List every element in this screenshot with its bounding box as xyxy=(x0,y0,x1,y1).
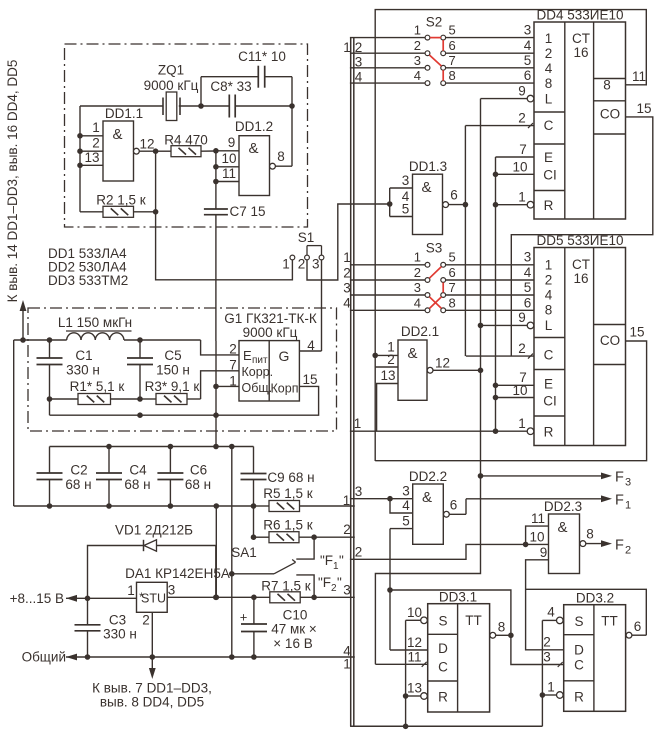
svg-text:1: 1 xyxy=(282,257,290,272)
counter U DD4 533IE10 box xyxy=(534,8,626,220)
node junction C11 left xyxy=(198,103,204,109)
svg-text:1: 1 xyxy=(343,250,351,265)
resistor R7 xyxy=(261,579,355,603)
wire group bus vertical pair xyxy=(351,38,354,727)
wire DD3.1 S-R tie column xyxy=(405,620,407,726)
wire G1 pin2 feed xyxy=(201,340,239,355)
svg-text:9: 9 xyxy=(540,545,548,560)
svg-text:11: 11 xyxy=(632,69,646,84)
wire DD3.2 S pin4 xyxy=(542,605,563,624)
wire DD3.1 output pin8 xyxy=(490,620,511,639)
svg-text:8: 8 xyxy=(449,68,456,83)
wire DD5 R pin1 net1 xyxy=(350,416,534,435)
svg-text:5: 5 xyxy=(524,280,532,295)
wire clock net column xyxy=(464,126,466,357)
capacitor C1 xyxy=(37,340,100,399)
svg-text:TT: TT xyxy=(465,613,482,628)
svg-text:11: 11 xyxy=(531,511,545,526)
svg-text:4: 4 xyxy=(524,265,532,280)
wire DD5 E pin7 xyxy=(496,370,535,385)
svg-text:R5 1,5 к: R5 1,5 к xyxy=(263,486,313,501)
wire load net column xyxy=(375,99,480,665)
node R7 SA1 tap xyxy=(311,595,317,601)
wire DD5 L pin9 xyxy=(481,310,534,329)
wire R3 to G1 pin7 xyxy=(201,371,239,399)
wire DD1.3 output pin6 xyxy=(443,188,466,208)
wire DD3.2 R pin1 xyxy=(542,680,563,699)
svg-text:1: 1 xyxy=(545,31,553,46)
svg-text:8: 8 xyxy=(545,303,553,318)
node G1 bottom junction xyxy=(213,412,219,418)
wire ground rail xyxy=(66,654,355,661)
net +5V supply: rotated label К выв. 14 DD1-DD3, выв. 16 DD4, DD5 xyxy=(5,60,20,303)
svg-text:1: 1 xyxy=(625,500,631,512)
svg-text:G: G xyxy=(279,348,290,364)
node DD2.2 pin3 junction xyxy=(387,496,393,502)
svg-text:F: F xyxy=(615,493,624,509)
node DD3.1 output junction xyxy=(508,633,514,639)
wire DD3.1 S pin10 xyxy=(406,605,428,624)
capacitor C2 xyxy=(37,447,92,507)
wire net2 step xyxy=(350,530,549,560)
wire DD2.3 pin9 xyxy=(526,545,549,590)
svg-text:× 16 В: × 16 В xyxy=(273,636,312,651)
node rail to regulator riser top xyxy=(214,503,220,509)
label S2 bus wire numbers xyxy=(343,40,363,85)
svg-text:C: C xyxy=(544,118,554,133)
wire DD1.3 pin5 xyxy=(390,202,413,217)
node DD3.2 R junction xyxy=(540,692,546,698)
node DD1.1 output junction xyxy=(153,148,159,154)
svg-text:13: 13 xyxy=(380,368,395,383)
wire DD1.2 pin9 xyxy=(216,135,239,151)
capacitor C9 xyxy=(241,447,315,507)
wire input line xyxy=(66,595,137,602)
resistor R2 xyxy=(80,193,156,218)
svg-text:+: + xyxy=(240,610,248,625)
capacitor C3 xyxy=(75,598,137,657)
node DD4 CI junction xyxy=(493,172,499,178)
svg-text:3: 3 xyxy=(414,53,421,68)
capacitor C11 xyxy=(201,49,292,106)
wire SA1 common column xyxy=(231,447,233,658)
node DD1.1 pin2 junction xyxy=(77,148,83,154)
svg-text:C9 68 н: C9 68 н xyxy=(267,470,314,485)
svg-text:47 мк ×: 47 мк × xyxy=(271,622,317,637)
wire S3 jumper 2-5 red xyxy=(429,267,441,279)
label DD1 DD2 DD3 types xyxy=(48,246,128,288)
svg-text:DD1.2: DD1.2 xyxy=(235,119,273,134)
svg-text:CT: CT xyxy=(572,31,590,46)
wire DD1.1 pin13 xyxy=(80,150,103,165)
wire S3 row 4 xyxy=(350,295,534,312)
svg-text:3: 3 xyxy=(414,280,421,295)
capacitor C8 xyxy=(210,79,251,118)
svg-text:&: & xyxy=(248,140,258,157)
op-amp U DD2.1 NAND gate xyxy=(398,324,439,400)
svg-text:SA1: SA1 xyxy=(231,545,257,560)
svg-text:16: 16 xyxy=(573,271,588,286)
svg-text:15: 15 xyxy=(629,325,644,340)
node C5 top junction xyxy=(137,337,143,343)
svg-text:D: D xyxy=(438,641,448,656)
wire DD5 CI pin10 xyxy=(496,383,535,398)
node SA1 common junction xyxy=(229,571,235,577)
svg-text:STU: STU xyxy=(141,592,166,606)
node DD2.1 pin1 junction xyxy=(372,353,378,359)
node DD1.1 pin13 junction xyxy=(77,163,83,169)
label net4 entry xyxy=(343,644,351,659)
node R6 left junction xyxy=(251,534,257,540)
oscillator G1 box xyxy=(224,311,317,401)
svg-text:9: 9 xyxy=(518,84,526,99)
resistor R3* xyxy=(140,379,201,405)
svg-text:7: 7 xyxy=(449,280,456,295)
svg-text:E: E xyxy=(544,150,553,165)
wire G1 pin1 xyxy=(216,385,239,387)
svg-text:выв. 8 DD4, DD5: выв. 8 DD4, DD5 xyxy=(100,695,204,710)
node DA1 out riser junction xyxy=(214,595,220,601)
svg-text:+8...15 В: +8...15 В xyxy=(10,591,64,606)
svg-text:1: 1 xyxy=(127,583,135,598)
node C3 ground junction xyxy=(85,654,91,660)
svg-text:12: 12 xyxy=(407,635,422,650)
svg-text:C11* 10: C11* 10 xyxy=(238,49,286,64)
resistor R6 xyxy=(254,518,355,543)
wire DD1.2 pin10 xyxy=(216,151,239,167)
svg-text:2: 2 xyxy=(414,265,421,280)
wire G1 pin4 output xyxy=(299,350,321,352)
op-amp U DD1.3 NAND gate xyxy=(409,159,447,235)
node C5 bottom rail junction xyxy=(137,412,143,418)
svg-text:DD2.2: DD2.2 xyxy=(409,469,447,484)
wire DD4 E pin7 xyxy=(496,142,535,157)
svg-text:К выв. 7 DD1–DD3,: К выв. 7 DD1–DD3, xyxy=(92,681,212,696)
svg-text:C: C xyxy=(544,348,554,363)
node bottom rail DD3.1 junction xyxy=(403,724,409,730)
svg-text:4: 4 xyxy=(545,288,553,303)
node C1 top junction xyxy=(47,337,53,343)
wire DD2.2 feedback column xyxy=(389,529,391,650)
wire DD3.1 R pin13 xyxy=(406,681,428,700)
svg-text:4: 4 xyxy=(343,296,351,311)
switch S2 labels xyxy=(426,15,443,30)
svg-text:S3: S3 xyxy=(426,241,443,256)
wire net3 to DD2.2 pin3 xyxy=(350,484,413,500)
capacitor C6 xyxy=(157,447,211,507)
wire S2 jumper 7-8 red xyxy=(442,70,444,81)
wire DD2.2 output pin6 xyxy=(444,498,467,518)
svg-text:9: 9 xyxy=(228,135,236,150)
svg-text:4: 4 xyxy=(524,38,532,53)
svg-text:6: 6 xyxy=(524,68,532,83)
capacitor C10 electrolytic xyxy=(240,597,317,657)
svg-text:DD2.1: DD2.1 xyxy=(401,324,439,339)
svg-text:3: 3 xyxy=(543,650,551,665)
op-amp U DD1.2 NAND gate xyxy=(235,119,273,196)
svg-text:3: 3 xyxy=(343,583,351,598)
svg-text:15: 15 xyxy=(636,101,651,116)
wire S3 row 1 xyxy=(350,250,534,268)
wire DD3.2 S-R tie column xyxy=(541,620,543,726)
svg-text:1: 1 xyxy=(343,493,351,508)
svg-text:3: 3 xyxy=(402,484,410,499)
svg-text:5: 5 xyxy=(524,53,532,68)
svg-text:L1 150 мкГн: L1 150 мкГн xyxy=(58,315,132,330)
svg-text:2: 2 xyxy=(518,341,526,356)
label DD1.3 pin4 xyxy=(402,189,410,204)
wire ground stub down arrow xyxy=(149,657,156,679)
svg-text:4: 4 xyxy=(355,70,363,85)
svg-text:R: R xyxy=(544,425,554,440)
svg-text:DD3.1: DD3.1 xyxy=(439,590,477,605)
svg-text:R3* 9,1 к: R3* 9,1 к xyxy=(145,379,200,394)
svg-text:S1: S1 xyxy=(298,230,315,245)
node SA1 common column top xyxy=(229,444,235,450)
node C4 top junction xyxy=(106,444,112,450)
svg-text:C2: C2 xyxy=(70,463,87,478)
wire group bus bottom rail xyxy=(350,725,542,727)
wire C9 column to R6 xyxy=(253,506,255,537)
wire S3 jumper 3-8 red xyxy=(429,297,441,309)
switch S3 labels xyxy=(426,241,443,256)
svg-text:2: 2 xyxy=(343,522,351,537)
wire DD4 R pin1 xyxy=(496,190,534,209)
svg-text:5: 5 xyxy=(402,202,410,217)
wire S2 row 2 xyxy=(350,38,534,56)
wire supply filter line y=340 xyxy=(14,339,201,341)
svg-text:6: 6 xyxy=(450,498,458,513)
svg-text:DD1.1: DD1.1 xyxy=(105,106,143,121)
svg-text:R: R xyxy=(438,690,448,705)
svg-text:7: 7 xyxy=(519,142,527,157)
svg-text:C: C xyxy=(438,660,448,675)
svg-text:6: 6 xyxy=(450,188,458,203)
svg-text:E: E xyxy=(544,377,553,392)
svg-text:2: 2 xyxy=(142,613,150,628)
svg-text:S: S xyxy=(438,614,447,629)
wire feedback column xyxy=(155,151,157,212)
wire DA1 pin2 to ground xyxy=(151,612,153,657)
svg-text:3: 3 xyxy=(343,281,351,296)
node DA1 pin2 ground junction xyxy=(150,654,156,660)
svg-text:5: 5 xyxy=(449,23,456,38)
svg-text:10: 10 xyxy=(407,605,422,620)
node C2 bottom junction xyxy=(47,503,53,509)
svg-text:Общий: Общий xyxy=(22,650,66,665)
wire DD3.1 out to DD3.2 C xyxy=(511,635,564,664)
node VD1 left junction xyxy=(85,596,91,602)
node DD1.3 output junction xyxy=(463,202,469,208)
svg-text:10: 10 xyxy=(221,151,236,166)
wire DD1.2 output pin8 xyxy=(270,106,292,169)
wire DD2.3 output pin8 F2 xyxy=(580,527,631,557)
svg-text:7: 7 xyxy=(229,358,237,373)
flip-flop U DD3.1 box xyxy=(428,590,490,713)
label net1 bus leg xyxy=(343,657,351,672)
svg-text:5: 5 xyxy=(449,250,456,265)
svg-text:R4 470: R4 470 xyxy=(164,133,208,148)
svg-text:1: 1 xyxy=(518,190,526,205)
svg-text:3: 3 xyxy=(312,257,320,272)
wire +5V rail y=506 xyxy=(14,505,254,507)
svg-text:4: 4 xyxy=(545,61,553,76)
op-amp U DD2.3 NAND gate xyxy=(544,499,582,574)
svg-text:1: 1 xyxy=(414,23,421,38)
node C6 top junction xyxy=(168,444,174,450)
wire riser +5 rail to DA1 output xyxy=(215,506,217,597)
label DD3.2 C pin3 xyxy=(543,650,562,668)
svg-text:6: 6 xyxy=(449,265,456,280)
wire G1 bottom rail xyxy=(50,414,217,416)
svg-text:R: R xyxy=(544,198,554,213)
wire DD2.1 pin1 xyxy=(375,340,398,356)
wire DA1 output line xyxy=(167,596,270,598)
node DD1.2 pin10 junction xyxy=(213,164,219,170)
svg-text:CT: CT xyxy=(572,257,590,272)
svg-text:330 н: 330 н xyxy=(66,363,100,378)
capacitor C5 xyxy=(127,340,190,399)
wire DD4 CO output 15 cascade xyxy=(511,101,653,356)
svg-text:F: F xyxy=(615,538,624,554)
wire DD1.1 pin2 xyxy=(80,136,103,152)
resistor R1* xyxy=(50,379,141,405)
svg-text:1: 1 xyxy=(343,40,351,55)
svg-text:&: & xyxy=(112,126,122,143)
svg-text:Корр.: Корр. xyxy=(242,365,274,379)
svg-text:Корп: Корп xyxy=(271,382,299,396)
node DD1.1 pin1 junction xyxy=(77,133,83,139)
node DD5 E junction xyxy=(493,383,499,389)
svg-text:2: 2 xyxy=(298,257,306,272)
svg-text:3: 3 xyxy=(625,477,631,489)
svg-text:C6: C6 xyxy=(190,463,207,478)
svg-text:2: 2 xyxy=(545,46,553,61)
wire S1 pin2 to DD1.3 inputs xyxy=(307,204,390,280)
svg-text:L: L xyxy=(545,92,553,107)
wire DD3.2 feedback loop xyxy=(526,589,647,635)
frame G1 dash-dot box xyxy=(28,308,337,431)
svg-text:CI: CI xyxy=(543,394,557,409)
node R1 left junction xyxy=(47,396,53,402)
svg-text:"F: "F xyxy=(320,553,333,568)
svg-text:6: 6 xyxy=(449,38,456,53)
svg-text:1: 1 xyxy=(414,250,421,265)
svg-text:68 н: 68 н xyxy=(124,477,150,492)
svg-text:DD3 533ТМ2: DD3 533ТМ2 xyxy=(48,273,128,288)
svg-text:R: R xyxy=(574,690,584,705)
node DD2.2 fb junction xyxy=(387,587,393,593)
label +8...15 V xyxy=(10,591,64,606)
svg-text:C1: C1 xyxy=(75,348,92,363)
svg-text:Общ.: Общ. xyxy=(242,381,273,395)
inductor L1 xyxy=(58,315,132,340)
capacitor C7 xyxy=(204,204,266,219)
svg-text:C10: C10 xyxy=(283,608,308,623)
wire DD4 C pin2 xyxy=(465,111,534,129)
wire DD4 L pin9 xyxy=(481,84,534,102)
wire DD3.2 output pin6 xyxy=(626,619,646,638)
svg-text:12: 12 xyxy=(435,356,450,371)
flip-flop U DD3.2 box xyxy=(564,591,626,712)
svg-text:6: 6 xyxy=(524,295,532,310)
svg-text:1: 1 xyxy=(547,680,555,695)
svg-text:&: & xyxy=(407,345,417,362)
counter U DD5 533IE10 box xyxy=(534,233,626,446)
wire S2 jumper 5-6 red xyxy=(442,40,444,51)
wire DD2.1 pin13 xyxy=(377,368,398,431)
svg-text:": " xyxy=(337,575,342,590)
svg-text:C3: C3 xyxy=(109,613,126,628)
node DD3.1 R junction xyxy=(403,693,409,699)
node R5 left junction xyxy=(251,503,257,509)
svg-text:13: 13 xyxy=(84,150,99,165)
wire S2 jumper 1-5 red xyxy=(430,37,441,39)
wire DD3.1 D pin12 xyxy=(390,635,428,650)
svg-text:&: & xyxy=(422,489,432,506)
op-amp U DD2.2 NAND gate xyxy=(409,469,447,544)
node VD1 right junction xyxy=(213,595,219,601)
diode VD1 xyxy=(88,523,216,599)
svg-text:C7 15: C7 15 xyxy=(229,204,265,219)
svg-text:R1* 5,1 к: R1* 5,1 к xyxy=(70,379,125,394)
svg-text:1: 1 xyxy=(343,657,351,672)
svg-text:2: 2 xyxy=(387,352,395,367)
svg-text:5: 5 xyxy=(402,514,410,529)
node C4 bottom junction xyxy=(106,503,112,509)
capacitor C4 xyxy=(96,447,151,507)
wire DD2.1 pin2 xyxy=(375,352,398,367)
svg-text:15: 15 xyxy=(302,372,317,387)
svg-text:8: 8 xyxy=(586,527,594,542)
svg-text:DD2.3: DD2.3 xyxy=(544,499,582,514)
svg-text:DD1.3: DD1.3 xyxy=(409,159,447,174)
svg-text:К выв. 14 DD1–DD3, выв. 16 DD4: К выв. 14 DD1–DD3, выв. 16 DD4, DD5 xyxy=(5,60,20,303)
wire S2 row 3 xyxy=(350,53,534,70)
node DD2.1 output junction xyxy=(478,368,484,374)
node SA1 column ground junction xyxy=(229,654,235,660)
svg-text:10: 10 xyxy=(512,160,527,175)
svg-text:7: 7 xyxy=(449,53,456,68)
wire oscillator output to S1 pin1 xyxy=(156,212,293,280)
svg-text:R2 1,5 к: R2 1,5 к xyxy=(96,193,146,208)
svg-text:DA1 КР142ЕН5А: DA1 КР142ЕН5А xyxy=(125,566,230,581)
wire G1 pin15 xyxy=(216,386,319,415)
node DD1.2 pin11 junction xyxy=(213,179,219,185)
wire DD5 C pin2 xyxy=(466,341,534,359)
svg-text:2: 2 xyxy=(545,273,553,288)
wire ECR bus column xyxy=(495,157,497,431)
wire S3 jumper 6-7 red xyxy=(442,283,444,293)
svg-text:3: 3 xyxy=(355,484,363,499)
wire DD2.3 pin11 bracket xyxy=(526,511,549,544)
node +5V junction at arrow xyxy=(20,337,26,343)
svg-text:9: 9 xyxy=(518,310,526,325)
svg-text:12: 12 xyxy=(139,137,154,152)
svg-text:S: S xyxy=(574,614,583,629)
svg-text:S2: S2 xyxy=(426,15,443,30)
wire S2 jumper 2-7 red xyxy=(429,55,441,66)
svg-text:10: 10 xyxy=(529,530,544,545)
wire S3 jumper 4-7 red xyxy=(429,297,441,309)
label DD5 input pins xyxy=(524,250,532,311)
frame oscillator dash-dot box xyxy=(65,44,308,227)
node junction C8 right xyxy=(289,103,295,109)
svg-text:D: D xyxy=(574,643,584,658)
svg-text:"F: "F xyxy=(318,575,331,590)
svg-text:8: 8 xyxy=(277,149,285,164)
svg-text:Е: Е xyxy=(243,348,252,363)
